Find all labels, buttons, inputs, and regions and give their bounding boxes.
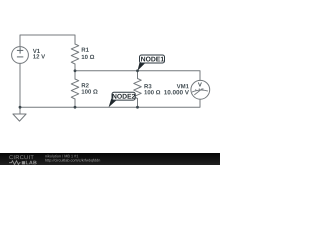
footer logo LAB bbox=[26, 161, 37, 165]
node flag NODE2 box bbox=[112, 92, 135, 100]
wire top rail from V1 to R1 bbox=[20, 35, 75, 47]
label R3 bbox=[144, 84, 151, 88]
wire mid rail NODE1 to voltmeter bbox=[75, 71, 200, 81]
label R2 bbox=[82, 83, 89, 87]
wire V1 bottom lead bbox=[19, 63, 21, 107]
ground triangle bbox=[13, 114, 26, 121]
label R3 value 100 ohm bbox=[144, 90, 160, 94]
label VM1 bbox=[177, 84, 189, 88]
resistor R1 bbox=[71, 44, 79, 64]
resistor R2 bbox=[71, 79, 79, 99]
ground stub bbox=[19, 107, 21, 114]
footer url line bbox=[45, 159, 100, 163]
node flag NODE2 pointer bbox=[109, 99, 117, 108]
node flag NODE1 text bbox=[141, 57, 164, 62]
wire bottom ground rail bbox=[20, 99, 200, 107]
wire R2 bottom lead bbox=[74, 99, 76, 107]
V1 plus sign bbox=[17, 47, 23, 57]
footer logo resistor squiggle bbox=[9, 161, 21, 165]
junction node at R3 bottom bbox=[136, 106, 139, 109]
label V1 bbox=[33, 49, 40, 53]
node flag NODE1 pointer bbox=[138, 62, 146, 71]
label R1 bbox=[82, 48, 89, 52]
footer watermark bar bbox=[0, 153, 220, 165]
label R2 value 100 ohm bbox=[82, 89, 98, 93]
junction node at R3 top bbox=[136, 69, 139, 72]
V1 minus sign bbox=[17, 56, 23, 58]
footer credit line bbox=[45, 155, 78, 158]
voltmeter VM1 circle bbox=[191, 80, 210, 99]
label V1 value 12 V bbox=[33, 54, 45, 58]
wire R1 to R2 junction leads bbox=[74, 64, 76, 79]
voltmeter face arc bbox=[192, 88, 208, 95]
footer logo CIRCUIT bbox=[9, 155, 33, 159]
resistor R3 bbox=[134, 79, 142, 99]
junction node at R1/R2 bbox=[74, 69, 77, 72]
wire R3 bottom lead bbox=[137, 99, 139, 108]
wire R3 top lead bbox=[137, 71, 139, 79]
junction node ground at V1 bbox=[19, 106, 22, 109]
footer logo block bbox=[22, 161, 25, 164]
label VM1 value 10.000 V bbox=[164, 90, 189, 94]
label R1 value 10 ohm bbox=[82, 55, 95, 59]
voltage source V1 circle bbox=[12, 47, 29, 64]
junction node at R2 bottom bbox=[74, 106, 77, 109]
node flag NODE1 box bbox=[140, 55, 165, 63]
voltmeter V letter bbox=[198, 82, 202, 86]
node flag NODE2 text bbox=[112, 94, 135, 99]
